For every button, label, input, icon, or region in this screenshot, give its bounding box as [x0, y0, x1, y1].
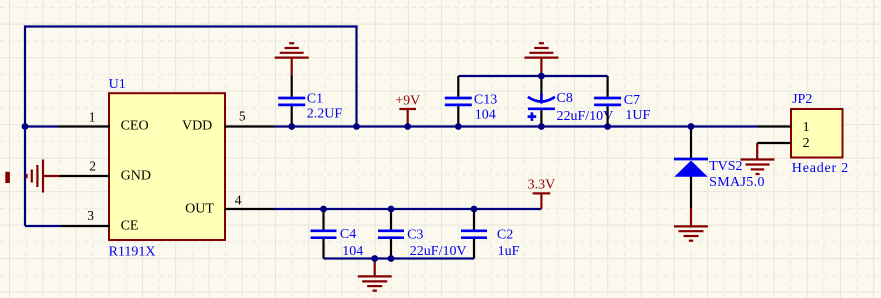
capacitor C3 22uF/10V [378, 209, 467, 259]
junction at ground / bottom rail [371, 255, 378, 262]
TVS diode TVS2 SMAJ5.0 [674, 127, 765, 209]
svg-text:C2: C2 [497, 228, 513, 243]
junction at C8 / rail [538, 123, 545, 130]
junction at C7 / rail [604, 123, 611, 130]
svg-text:22uF/10V: 22uF/10V [410, 244, 467, 259]
svg-text:CEO: CEO [121, 119, 149, 134]
svg-text:GND: GND [121, 169, 151, 184]
polarized capacitor C8 22uF/10V [528, 76, 614, 127]
svg-text:JP2: JP2 [792, 92, 812, 107]
junction at TVS2 / rail [688, 123, 695, 130]
svg-text:3.3V: 3.3V [528, 177, 556, 192]
junction at C4 / OUT rail [320, 206, 327, 213]
ground symbol at U1 GND pin (pointing left) [27, 160, 60, 193]
wire: OUT rail to 3.3V [274, 208, 541, 210]
ground above C1 (pointing up) [275, 43, 309, 75]
svg-text:1uF: 1uF [498, 244, 520, 259]
junction at top loop / rail [353, 123, 360, 130]
ground at JP2 pin 2 [741, 143, 775, 174]
clipped ground bar artifact at sheet left edge [5, 172, 10, 183]
svg-text:5: 5 [239, 109, 246, 124]
svg-text:C7: C7 [624, 93, 640, 108]
JP2 pin 2 [757, 136, 809, 151]
wire: stub to CEO pin 1 [25, 125, 58, 127]
svg-text:C4: C4 [340, 227, 356, 242]
svg-text:VDD: VDD [182, 119, 212, 134]
power port 3.3V [528, 177, 556, 209]
svg-text:2: 2 [89, 159, 96, 174]
capacitor C2 1uF [461, 209, 520, 259]
svg-text:U1: U1 [109, 77, 126, 92]
wire: stub to CE pin 3 [25, 225, 61, 227]
svg-text:4: 4 [235, 192, 242, 207]
capacitor C7 1UF [594, 76, 650, 127]
svg-text:2: 2 [803, 136, 810, 151]
svg-text:1: 1 [803, 120, 810, 135]
wire: bottom rail joining C4/C3/C2 to ground [324, 257, 475, 259]
svg-text:104: 104 [342, 244, 363, 259]
svg-text:R1191X: R1191X [109, 244, 156, 259]
svg-text:C1: C1 [307, 92, 323, 107]
junction at +9V / rail [404, 123, 411, 130]
ground below TVS2 [674, 208, 708, 241]
wire: top sub-rail joining C13/C8/C7 to ground [458, 75, 607, 77]
junction at C2 / OUT rail [471, 206, 478, 213]
svg-text:+9V: +9V [395, 94, 420, 109]
junction at C8 / sub-rail [538, 73, 545, 80]
junction at CEO / left wire [22, 123, 29, 130]
svg-text:C8: C8 [557, 91, 573, 106]
wire: main VDD rail [274, 125, 758, 127]
svg-text:OUT: OUT [185, 202, 214, 217]
junction at C3 / OUT rail [388, 206, 395, 213]
svg-text:1: 1 [89, 109, 96, 124]
header JP2 body [791, 109, 843, 158]
svg-text:2.2UF: 2.2UF [307, 106, 343, 121]
JP2 pin 1 [758, 120, 810, 135]
capacitor C4 104 [311, 209, 364, 259]
capacitor C13 104 [445, 76, 497, 127]
svg-text:CE: CE [121, 218, 139, 233]
svg-text:1UF: 1UF [625, 108, 650, 123]
U1 pin 3 CE [61, 208, 138, 234]
svg-text:SMAJ5.0: SMAJ5.0 [709, 175, 765, 190]
svg-text:C3: C3 [407, 228, 423, 243]
capacitor C1 2.2UF [278, 76, 342, 127]
power port +9V [395, 94, 420, 127]
junction at C1 / rail [288, 123, 295, 130]
ground above C8 sub-rail (pointing up) [524, 43, 558, 76]
junction at C3 / bottom rail [388, 255, 395, 262]
ground below C4/C3/C2 bottom rail [358, 259, 392, 291]
svg-text:TVS2: TVS2 [709, 159, 742, 174]
svg-text:C13: C13 [474, 93, 497, 108]
svg-text:22uF/10V: 22uF/10V [557, 109, 614, 124]
svg-text:3: 3 [87, 208, 94, 223]
U1 pin 4 OUT [185, 192, 274, 216]
U1 pin 2 GND [60, 159, 151, 184]
U1 pin 1 CEO [58, 109, 149, 133]
IC U1 body [109, 93, 225, 240]
wire: left loop from CE pin up across the top to VDD rail [25, 27, 357, 227]
svg-text:104: 104 [475, 108, 496, 123]
svg-text:Header 2: Header 2 [792, 161, 849, 176]
junction at C13 / rail [455, 123, 462, 130]
U1 pin 5 VDD [182, 109, 274, 134]
